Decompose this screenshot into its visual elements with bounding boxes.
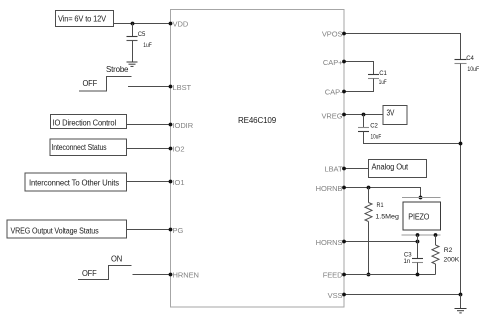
- wire CAP+ to C1: [344, 62, 374, 75]
- svg-text:C5: C5: [138, 32, 146, 38]
- junction LBST pin: [169, 85, 173, 89]
- capacitor C3: [404, 253, 424, 265]
- svg-text:HORNS: HORNS: [316, 238, 343, 247]
- wire FEED: [344, 274, 436, 276]
- svg-text:HORNB: HORNB: [316, 184, 343, 193]
- svg-text:1uF: 1uF: [379, 80, 387, 86]
- junction C3/FEED node: [416, 273, 420, 277]
- svg-text:R2: R2: [444, 248, 453, 254]
- junction PG pin: [169, 228, 173, 232]
- wire C5 top lead: [132, 24, 134, 37]
- box PIEZO: [403, 202, 441, 230]
- wire C2 bottom to C4 rail: [364, 132, 461, 144]
- svg-text:C2: C2: [370, 124, 378, 130]
- svg-text:10uF: 10uF: [467, 67, 479, 73]
- svg-text:FEED: FEED: [323, 270, 343, 279]
- svg-text:ON: ON: [111, 255, 122, 264]
- wire VSS: [344, 294, 461, 296]
- wire VREG to 3V box: [344, 114, 383, 116]
- svg-text:C3: C3: [404, 253, 412, 259]
- junction HORNB/R1 node: [367, 186, 371, 190]
- junction LBAT pin: [342, 167, 346, 171]
- svg-text:PIEZO: PIEZO: [408, 212, 429, 221]
- wire IO1: [126, 181, 171, 183]
- junction C2/C4 rail: [459, 142, 463, 146]
- box Analog Out: [369, 160, 427, 178]
- signal step symbol for HRNEN: [78, 266, 132, 280]
- svg-text:1.5Meg: 1.5Meg: [375, 214, 399, 220]
- junction FEED pin: [342, 273, 346, 277]
- wire C4 bottom to VSS rail: [460, 64, 462, 295]
- box Interconnect To Other Units: [25, 173, 127, 191]
- svg-text:HRNEN: HRNEN: [173, 270, 199, 279]
- capacitor C1: [368, 71, 388, 86]
- junction CAP+ pin: [342, 60, 346, 64]
- wire piezo bottom-left to C3: [417, 235, 419, 259]
- capacitor C4: [455, 56, 480, 73]
- signal step symbol for LBST: [79, 77, 132, 92]
- junction VREG pin: [342, 113, 346, 117]
- box Vin= 6V to 12V: [56, 11, 114, 27]
- junction VDD pin: [169, 22, 173, 26]
- junction HORNB pin: [342, 186, 346, 190]
- wire HORNS: [344, 241, 418, 243]
- junction R1 bottom on FEED wire: [367, 273, 371, 277]
- junction piezo bottom-left terminal: [416, 233, 420, 237]
- svg-text:IODIR: IODIR: [173, 121, 194, 130]
- svg-text:Analog Out: Analog Out: [372, 162, 409, 171]
- svg-text:VPOS: VPOS: [322, 29, 343, 38]
- svg-text:VREG: VREG: [321, 111, 342, 120]
- wire C5 bottom lead: [132, 41, 134, 63]
- resistor R2: [432, 235, 459, 275]
- junction IO2 pin: [169, 147, 173, 151]
- svg-text:VREG Output Voltage Status: VREG Output Voltage Status: [11, 226, 99, 235]
- svg-text:1n: 1n: [404, 259, 411, 265]
- junction VSS pin: [342, 293, 346, 297]
- svg-text:VDD: VDD: [173, 19, 189, 28]
- svg-text:3V: 3V: [387, 109, 395, 118]
- svg-text:VSS: VSS: [328, 291, 343, 300]
- ground below C5: [127, 62, 138, 66]
- svg-text:Vin= 6V to 12V: Vin= 6V to 12V: [58, 15, 107, 24]
- wire C2 top lead: [363, 115, 365, 128]
- svg-text:IO1: IO1: [173, 178, 185, 187]
- svg-text:10uF: 10uF: [371, 135, 382, 141]
- junction VPOS pin: [342, 32, 346, 36]
- wire VPOS to C4: [344, 34, 461, 60]
- svg-text:CAP-: CAP-: [325, 87, 343, 96]
- wire HORNB to piezo top: [344, 188, 421, 198]
- svg-text:PG: PG: [173, 226, 184, 235]
- svg-text:C4: C4: [466, 56, 474, 62]
- ground bottom right: [455, 309, 467, 313]
- wire Vin box to VDD pin: [114, 23, 171, 25]
- junction VSS/C4 rail: [459, 293, 463, 297]
- wire IO2: [127, 148, 171, 150]
- junction piezo bottom-right terminal: [434, 233, 438, 237]
- wire C3 bottom to FEED: [417, 263, 419, 275]
- junction IO1 pin: [169, 180, 173, 184]
- IC U1 RE46C109 body: [171, 10, 345, 308]
- wire PG: [127, 229, 171, 231]
- svg-text:RE46C109: RE46C109: [238, 116, 277, 125]
- svg-text:CAP+: CAP+: [323, 58, 343, 67]
- junction HORNS pin: [342, 240, 346, 244]
- svg-text:IO Direction Control: IO Direction Control: [53, 119, 117, 128]
- box 3V: [383, 106, 407, 125]
- piezo top terminal bar: [402, 197, 441, 199]
- junction CAP- pin: [342, 90, 346, 94]
- wire VSS rail to ground: [460, 295, 462, 309]
- wire to LBST pin: [128, 86, 171, 88]
- svg-text:OFF: OFF: [82, 269, 97, 278]
- svg-text:200K: 200K: [444, 257, 460, 263]
- piezo bottom terminal bar: [402, 234, 441, 236]
- svg-text:IO2: IO2: [173, 145, 185, 154]
- junction piezo top terminal: [419, 196, 423, 200]
- capacitor C5: [127, 32, 153, 49]
- junction Vin/C5 node: [131, 22, 135, 26]
- junction IODIR pin: [169, 123, 173, 127]
- box Inteconnect Status: [50, 139, 127, 156]
- junction VREG/C2 node: [362, 113, 366, 117]
- wire IODIR: [127, 124, 171, 126]
- svg-text:R1: R1: [377, 203, 385, 209]
- box IO Direction Control: [51, 115, 127, 129]
- svg-text:Strobe: Strobe: [106, 65, 129, 74]
- svg-text:OFF: OFF: [83, 79, 98, 88]
- capacitor C2: [358, 124, 381, 141]
- svg-text:C1: C1: [379, 71, 387, 77]
- junction HRNEN pin: [169, 273, 173, 277]
- svg-text:Inteconnect Status: Inteconnect Status: [52, 143, 107, 152]
- svg-text:1uF: 1uF: [143, 43, 152, 49]
- wire to HRNEN pin: [133, 274, 171, 276]
- wire LBAT to Analog Out box: [344, 168, 369, 170]
- wire C1 bottom to CAP-: [344, 79, 374, 92]
- svg-text:LBAT: LBAT: [324, 164, 342, 173]
- box VREG Output Voltage Status: [7, 220, 127, 238]
- junction HORNS/C3 node: [416, 240, 420, 244]
- svg-text:Interconnect To Other Units: Interconnect To Other Units: [29, 179, 119, 188]
- resistor R1: [365, 188, 399, 275]
- svg-text:LBST: LBST: [173, 83, 192, 92]
